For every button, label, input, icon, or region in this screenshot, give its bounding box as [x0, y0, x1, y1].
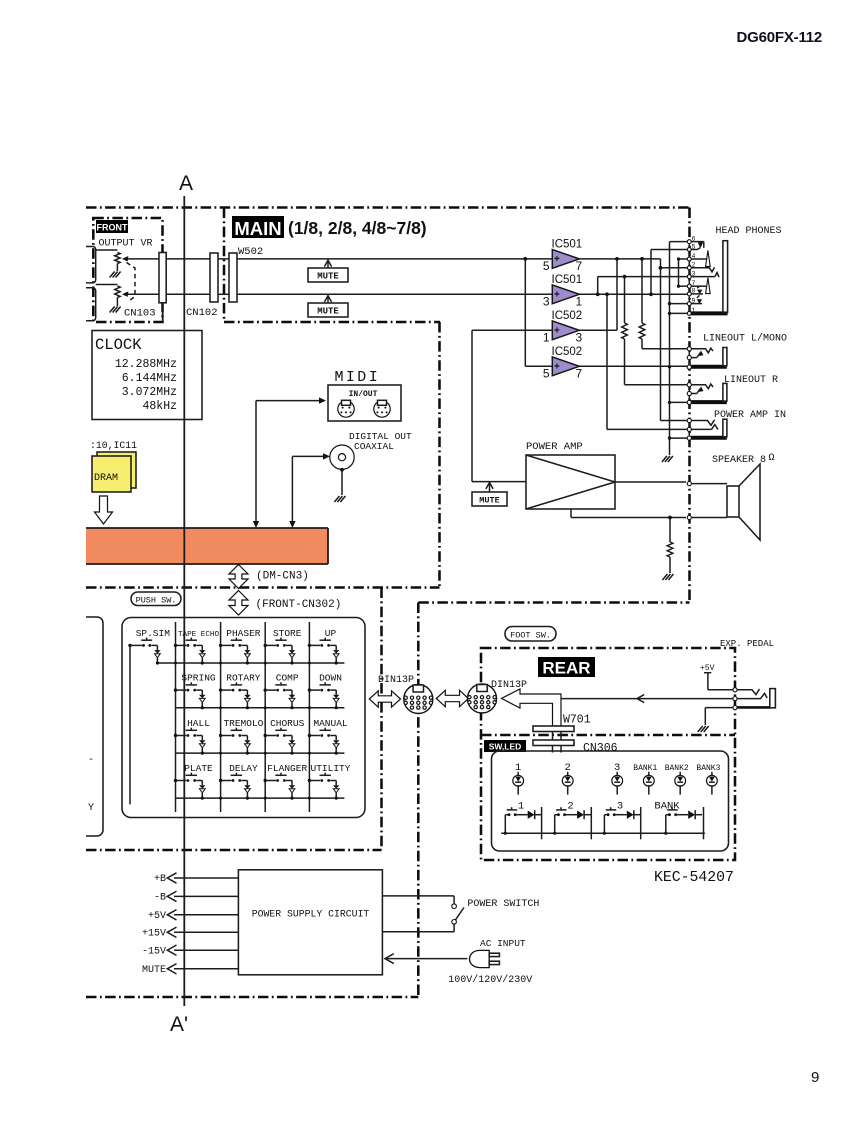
- svg-text:POWER AMP: POWER AMP: [526, 441, 583, 453]
- svg-text:MANUAL: MANUAL: [313, 718, 348, 729]
- svg-text:COAXIAL: COAXIAL: [354, 441, 394, 452]
- svg-text:ROTARY: ROTARY: [226, 673, 261, 684]
- svg-text:EXP. PEDAL: EXP. PEDAL: [720, 639, 774, 649]
- svg-text:CHORUS: CHORUS: [270, 718, 305, 729]
- svg-text:BANK3: BANK3: [696, 764, 720, 773]
- svg-text:A': A': [170, 1013, 188, 1036]
- svg-text:7: 7: [692, 280, 696, 287]
- svg-text:DRAM: DRAM: [94, 473, 118, 484]
- svg-text:3.072MHz: 3.072MHz: [122, 386, 177, 399]
- svg-text:FLANGER: FLANGER: [267, 763, 307, 774]
- svg-text:+15V: +15V: [142, 929, 166, 940]
- svg-text:(DM-CN3): (DM-CN3): [256, 571, 309, 583]
- svg-text:FRONT: FRONT: [97, 223, 128, 233]
- svg-text:12.288MHz: 12.288MHz: [115, 358, 177, 371]
- svg-text:MUTE: MUTE: [317, 307, 339, 317]
- svg-text:PUSH SW.: PUSH SW.: [136, 595, 177, 605]
- svg-text:DIN13P: DIN13P: [491, 680, 527, 691]
- svg-text:LINEOUT L/MONO: LINEOUT L/MONO: [703, 333, 787, 345]
- svg-text:1: 1: [518, 801, 524, 813]
- svg-text::10,IC11: :10,IC11: [90, 440, 137, 451]
- svg-text:KEC-54207: KEC-54207: [654, 870, 734, 886]
- svg-text:7: 7: [576, 259, 583, 273]
- svg-text:+: +: [554, 290, 560, 301]
- svg-text:SP.SIM: SP.SIM: [136, 628, 171, 639]
- svg-text:+: +: [554, 326, 560, 337]
- svg-text:+B: +B: [154, 874, 166, 885]
- svg-text:MUTE: MUTE: [479, 496, 499, 506]
- svg-text:SPEAKER 8: SPEAKER 8: [712, 455, 766, 466]
- svg-text:W701: W701: [563, 714, 591, 727]
- svg-text:4: 4: [692, 253, 696, 260]
- svg-text:POWER SUPPLY CIRCUIT: POWER SUPPLY CIRCUIT: [252, 909, 370, 920]
- svg-text:POWER SWITCH: POWER SWITCH: [467, 899, 539, 910]
- svg-text:COMP: COMP: [276, 673, 299, 684]
- svg-text:MUTE: MUTE: [142, 965, 166, 976]
- svg-text:9: 9: [811, 1069, 819, 1086]
- svg-text:REAR: REAR: [542, 659, 590, 678]
- svg-text:OUTPUT VR: OUTPUT VR: [99, 239, 153, 250]
- svg-text:UP: UP: [325, 628, 337, 639]
- svg-text:1: 1: [543, 330, 550, 344]
- svg-text:5: 5: [543, 259, 550, 273]
- svg-text:DELAY: DELAY: [229, 763, 258, 774]
- svg-text:TREMOLO: TREMOLO: [223, 718, 263, 729]
- svg-text:BANK: BANK: [654, 801, 680, 813]
- svg-text:7: 7: [576, 366, 583, 380]
- svg-text:UTILITY: UTILITY: [311, 763, 351, 774]
- svg-text:5: 5: [543, 366, 550, 380]
- svg-text:PLATE: PLATE: [184, 763, 213, 774]
- svg-text:8: 8: [692, 288, 696, 295]
- svg-text:3: 3: [692, 270, 696, 277]
- svg-text:AC INPUT: AC INPUT: [480, 938, 526, 949]
- svg-text:TAPE ECHO: TAPE ECHO: [178, 631, 219, 639]
- svg-text:1: 1: [692, 307, 696, 314]
- svg-text:3: 3: [543, 294, 550, 308]
- svg-text:LINEOUT R: LINEOUT R: [724, 375, 778, 386]
- svg-text:SPRING: SPRING: [181, 673, 216, 684]
- svg-text:BANK1: BANK1: [633, 764, 657, 773]
- svg-text:Ω: Ω: [769, 453, 775, 464]
- svg-text:-B: -B: [154, 893, 166, 904]
- svg-text:CN306: CN306: [583, 742, 618, 755]
- svg-text:+: +: [554, 362, 560, 373]
- svg-text:3: 3: [576, 330, 583, 344]
- svg-text:(1/8, 2/8, 4/8~7/8): (1/8, 2/8, 4/8~7/8): [288, 218, 427, 238]
- svg-text:100V/120V/230V: 100V/120V/230V: [448, 974, 532, 986]
- svg-text:FOOT SW.: FOOT SW.: [510, 631, 551, 641]
- svg-text:MAIN: MAIN: [234, 218, 281, 239]
- svg-text:5: 5: [692, 243, 696, 250]
- svg-text:DG60FX-112: DG60FX-112: [737, 29, 823, 46]
- svg-text:IC501: IC501: [552, 238, 583, 250]
- svg-text:-: -: [88, 755, 94, 766]
- svg-text:Y: Y: [88, 803, 94, 814]
- svg-text:2: 2: [692, 262, 696, 269]
- svg-text:IN/OUT: IN/OUT: [349, 390, 378, 399]
- svg-text:48kHz: 48kHz: [142, 400, 177, 413]
- svg-text:2: 2: [567, 801, 573, 813]
- svg-text:+5V: +5V: [148, 911, 166, 922]
- svg-text:CN102: CN102: [186, 307, 218, 319]
- svg-text:IC502: IC502: [552, 310, 583, 322]
- svg-text:PHASER: PHASER: [226, 628, 261, 639]
- svg-text:(FRONT-CN302): (FRONT-CN302): [256, 599, 342, 611]
- svg-text:IC502: IC502: [552, 346, 583, 358]
- svg-text:A: A: [179, 172, 193, 195]
- svg-text:DIN13P: DIN13P: [378, 675, 414, 686]
- svg-text:HALL: HALL: [187, 718, 210, 729]
- svg-text:6.144MHz: 6.144MHz: [122, 372, 177, 385]
- svg-text:9: 9: [692, 297, 696, 304]
- svg-text:MUTE: MUTE: [317, 272, 339, 282]
- svg-text:HEAD PHONES: HEAD PHONES: [716, 226, 782, 237]
- svg-text:CN103: CN103: [124, 308, 156, 320]
- svg-text:+: +: [554, 254, 560, 265]
- svg-text:3: 3: [617, 801, 623, 813]
- svg-text:SW,LED: SW,LED: [489, 742, 522, 752]
- svg-text:IC501: IC501: [552, 274, 583, 286]
- svg-text:-15V: -15V: [142, 946, 166, 957]
- svg-text:W502: W502: [238, 246, 263, 258]
- svg-text:STORE: STORE: [273, 628, 302, 639]
- svg-text:1: 1: [576, 294, 583, 308]
- svg-text:BANK2: BANK2: [665, 764, 689, 773]
- svg-text:MIDI: MIDI: [335, 369, 381, 386]
- svg-text:6: 6: [692, 235, 696, 242]
- svg-text:DOWN: DOWN: [319, 673, 342, 684]
- svg-text:+5V: +5V: [700, 664, 715, 673]
- svg-text:CLOCK: CLOCK: [95, 336, 142, 354]
